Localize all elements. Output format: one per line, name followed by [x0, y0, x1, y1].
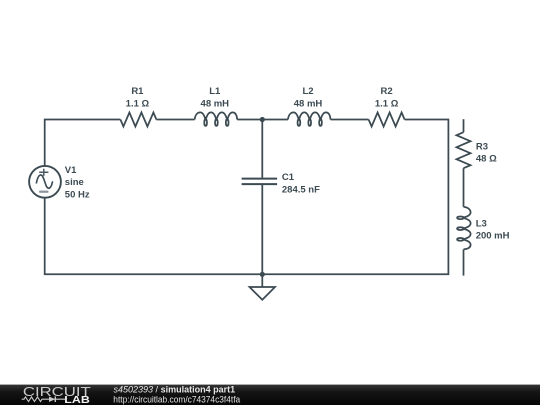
- svg-text:200 mH: 200 mH: [476, 230, 510, 241]
- svg-text:C1: C1: [282, 172, 295, 183]
- inductor L1: [195, 112, 238, 126]
- wire L3 stub bottom: [463, 249, 465, 275]
- svg-text:sine: sine: [65, 177, 84, 188]
- wire R3 stub top: [463, 119, 465, 132]
- svg-text:L3: L3: [476, 218, 487, 229]
- svg-text:48 Ω: 48 Ω: [476, 154, 497, 165]
- svg-text:1.1 Ω: 1.1 Ω: [126, 98, 150, 109]
- voltage source V1: [29, 166, 61, 198]
- svg-text:L2: L2: [302, 86, 313, 97]
- wire C1 branch top: [261, 120, 263, 178]
- svg-text:LAB: LAB: [64, 394, 90, 405]
- ground: [250, 287, 276, 300]
- V1 plus: [39, 169, 48, 176]
- svg-text:R1: R1: [131, 86, 144, 97]
- resistor R3: [457, 132, 471, 168]
- svg-text:R2: R2: [381, 86, 393, 97]
- svg-text:s4502393 / simulation4 part1: s4502393 / simulation4 part1: [114, 384, 236, 394]
- resistor R2: [369, 113, 405, 127]
- wire C1 branch bottom: [261, 185, 263, 274]
- inductor L2: [288, 112, 331, 126]
- inductor L3: [457, 207, 471, 250]
- logo wire: [22, 397, 65, 402]
- svg-text:L1: L1: [209, 86, 221, 97]
- svg-text:48 mH: 48 mH: [294, 98, 323, 109]
- node junction bottom: [260, 272, 265, 277]
- logo diode: [49, 396, 55, 402]
- wire L2 to R2: [331, 119, 369, 121]
- svg-text:284.5 nF: 284.5 nF: [282, 184, 320, 195]
- logo diode cathode bar: [54, 396, 56, 402]
- svg-text:V1: V1: [65, 165, 77, 176]
- wire R3 to L3: [463, 168, 465, 207]
- wire left edge and top-left: [45, 120, 121, 167]
- V1 minus: [39, 191, 48, 193]
- wire L1 to node: [237, 119, 288, 121]
- node junction top: [260, 117, 265, 122]
- svg-text:R3: R3: [476, 141, 488, 152]
- svg-text:48 mH: 48 mH: [201, 98, 230, 109]
- svg-text:50 Hz: 50 Hz: [65, 189, 90, 200]
- wire ground stub: [261, 274, 263, 287]
- svg-text:http://circuitlab.com/c74374c3: http://circuitlab.com/c74374c3f4tfa: [113, 394, 240, 404]
- resistor R1: [120, 113, 156, 127]
- capacitor C1: [242, 179, 278, 185]
- V1 sine symbol: [36, 175, 52, 188]
- wire R1 to L1: [156, 119, 194, 121]
- wire R2 to right edge, bottom, back to V1: [45, 120, 449, 275]
- svg-text:1.1 Ω: 1.1 Ω: [375, 98, 399, 109]
